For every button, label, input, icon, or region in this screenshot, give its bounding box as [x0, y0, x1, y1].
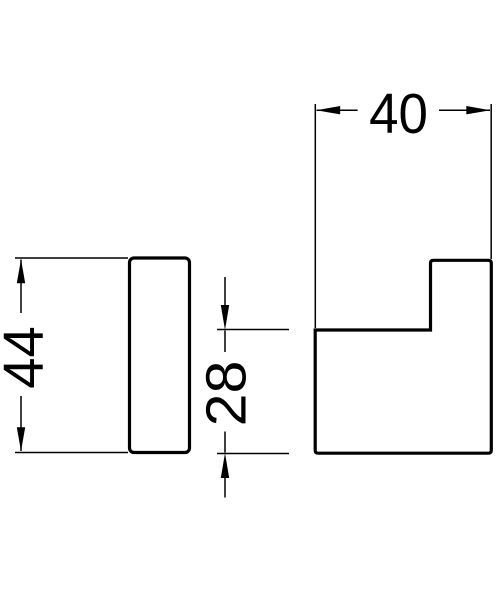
dim 40: left extension line	[314, 104, 316, 328]
dim 28: top extension line	[217, 329, 289, 331]
dim 44: bottom extension line	[15, 452, 128, 454]
dim 28: bottom extension line	[217, 453, 289, 455]
dim 28: lower stub inside span	[224, 432, 226, 453]
side view plate (rounded rectangle)	[130, 258, 190, 453]
dim 40: right extension line	[490, 104, 492, 259]
front view hook body (step outline)	[315, 260, 491, 453]
dim 44: down arrowhead	[17, 427, 25, 451]
dim 28: bottom approach shaft	[224, 478, 226, 498]
dim 40: left arrowhead	[316, 106, 340, 114]
dim 40: right arrowhead	[466, 106, 490, 114]
svg-text:44: 44	[0, 326, 55, 389]
dim 40: dimension line right segment	[439, 109, 490, 111]
dim 40: dimension line left segment	[317, 109, 358, 111]
svg-text:40: 40	[369, 82, 428, 145]
dim 28: top arrowhead (pointing down)	[221, 305, 229, 330]
dim 44: up arrowhead	[17, 259, 25, 283]
dim 44: top extension line	[15, 257, 128, 259]
dim 44: lower dimension line segment	[20, 396, 22, 451]
dim 28: top approach shaft	[224, 277, 226, 305]
dim 28: bottom arrowhead (pointing up)	[221, 453, 229, 478]
dim 44: upper dimension line segment	[20, 260, 22, 314]
dim 28: upper stub inside span	[224, 331, 226, 353]
svg-text:28: 28	[195, 361, 258, 427]
